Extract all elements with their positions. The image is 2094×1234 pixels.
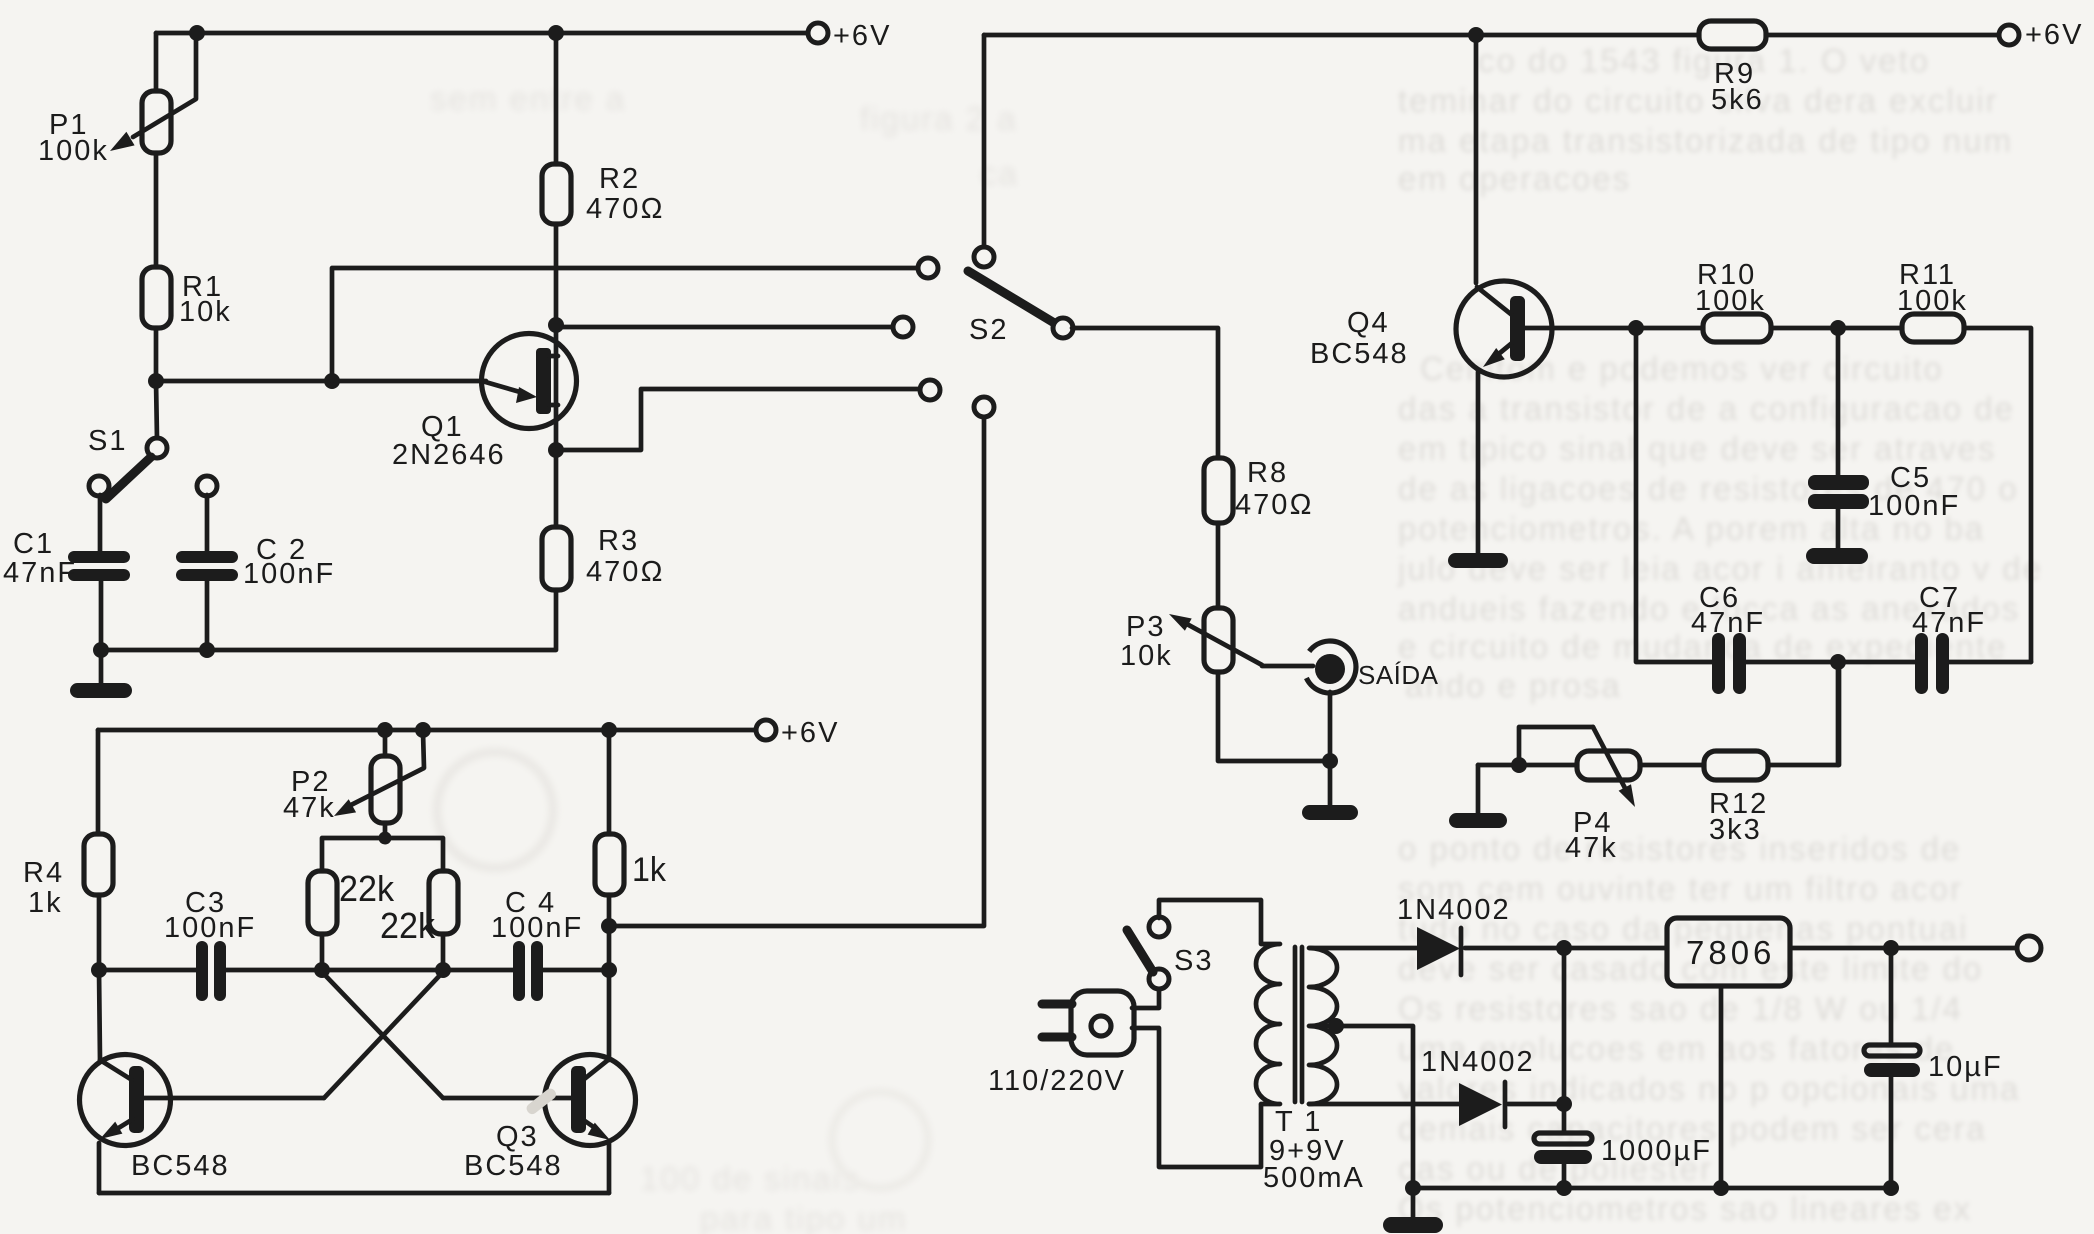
svg-text:10k: 10k <box>1120 640 1173 672</box>
S2 contact 2 <box>893 317 913 337</box>
svg-text:BC548: BC548 <box>464 1150 563 1182</box>
node rail/P2 body <box>377 722 393 738</box>
wire plug bottom loop to primary bottom <box>1132 1028 1261 1167</box>
resistor R2 470R <box>542 163 665 225</box>
ground (P4) <box>1449 813 1507 828</box>
svg-text:100k: 100k <box>38 135 109 167</box>
wire P3 wiper to output jack <box>1262 664 1313 669</box>
resistor 22k (right) <box>380 871 458 946</box>
capacitor C1 47nF <box>3 528 130 589</box>
svg-text:100 de sinais: 100 de sinais <box>640 1160 860 1197</box>
node P4 left/wiper tie <box>1511 757 1527 773</box>
wire node to Q1 emitter <box>156 379 486 384</box>
resistor R3 470R <box>542 525 665 590</box>
wire R2 through Q1 to B1 node <box>554 224 559 450</box>
svg-text:100k: 100k <box>1695 285 1766 317</box>
wire +6V vertical feed to S2 arm <box>982 35 987 248</box>
wire 1000uF to rail <box>1562 1164 1567 1188</box>
wire rail to R4 <box>96 730 101 834</box>
capacitor C7 47nF <box>1912 582 1986 694</box>
wire C6 to C7 <box>1746 660 1916 665</box>
S2 contact 1 <box>918 258 938 278</box>
resistor R12 3k3 <box>1704 751 1768 846</box>
node Q4 base/C6 branch <box>1628 320 1644 336</box>
ground (C5) <box>1806 548 1868 564</box>
wire C7 to right branch <box>1949 660 2031 665</box>
potentiometer P2 47k <box>283 730 424 824</box>
transistor Q2 BC548 <box>80 1055 325 1183</box>
S2 contact 3 <box>920 380 940 400</box>
wire +6V rail right <box>984 33 1699 38</box>
svg-text:R3: R3 <box>598 525 639 557</box>
svg-text:BC548: BC548 <box>1310 338 1409 370</box>
wire 7806 common pin <box>1719 986 1724 1188</box>
capacitor 1000uF <box>1534 1133 1712 1167</box>
output terminal <box>2017 936 2041 960</box>
svg-text:para tipo um: para tipo um <box>700 1200 907 1234</box>
potentiometer P1 100k <box>38 36 196 167</box>
wire B1 node to R3 <box>554 450 559 527</box>
svg-text:teminar do circuito silva dera: teminar do circuito silva dera excluir <box>1398 82 1999 119</box>
svg-text:1k: 1k <box>632 851 667 889</box>
svg-text:R8: R8 <box>1247 457 1288 489</box>
node C1 bottom junction <box>93 642 109 658</box>
wire Q3 emitter to rail <box>607 1143 612 1193</box>
transformer T1 secondary winding <box>1309 948 1337 1104</box>
resistor R8 470R <box>1204 457 1314 523</box>
svg-text:em operacoes: em operacoes <box>1398 160 1631 197</box>
resistor R10 100k <box>1695 259 1771 342</box>
wire Q4 emitter to ground <box>1476 372 1481 553</box>
wire secondary center tap <box>1311 1026 1413 1188</box>
svg-text:S3: S3 <box>1174 945 1213 977</box>
wire 10uF branch <box>1889 948 1894 1045</box>
wire R10 to R11 <box>1771 326 1902 331</box>
wire R8 to P3 <box>1216 523 1221 608</box>
wire C6/C7 node down to R12 branch <box>1836 662 1841 765</box>
svg-text:110/220V: 110/220V <box>988 1065 1126 1097</box>
svg-text:1N4002: 1N4002 <box>1421 1046 1535 1078</box>
wire terminal to C2 <box>205 495 210 551</box>
ground (Q4 emitter) <box>1448 553 1508 568</box>
svg-text:sem entre a: sem entre a <box>430 80 626 117</box>
wire P3 bottom to ground node <box>1218 672 1330 761</box>
svg-text:+6V: +6V <box>2025 19 2083 51</box>
node D1/D2/C(1000u) <box>1556 940 1572 956</box>
diode D1 1N4002 (top) <box>1397 894 1511 975</box>
wire D1 to V+ node <box>1465 946 1667 951</box>
wire S2 arm to R8 <box>1072 328 1218 458</box>
wire R2 to rail <box>554 33 559 164</box>
wire +6V rail top-left <box>156 31 809 36</box>
svg-text:47k: 47k <box>1565 832 1618 864</box>
wire P4 to ground <box>1476 765 1481 814</box>
wire 1k to collector node <box>607 895 612 970</box>
wire +6V rail astable <box>98 728 757 733</box>
wire P1 to R1 <box>154 153 159 267</box>
node D2/C junction <box>1556 1096 1572 1112</box>
transistor Q1 2N2646 <box>392 334 577 472</box>
wire jack sleeve to ground node <box>1328 692 1333 761</box>
svg-text:1000µF: 1000µF <box>1601 1135 1712 1167</box>
T1 labels <box>1263 1106 1365 1194</box>
node S2-feed junction <box>601 918 617 934</box>
switch S2 <box>968 247 1073 346</box>
ground (PSU) <box>1383 1217 1443 1233</box>
node C6/C7/R12 <box>1830 654 1846 670</box>
wire split to 22k right <box>385 838 443 871</box>
resistor R4 1k <box>23 834 113 919</box>
+6V terminal (astable) <box>756 720 776 740</box>
svg-text:1k: 1k <box>28 887 63 919</box>
wire 22k left to node <box>320 934 325 970</box>
wire 7806 output <box>1790 946 2021 951</box>
diode D2 1N4002 (bottom) <box>1421 1046 1535 1127</box>
GHOST-BG <box>1397 42 2043 1227</box>
node C2 bottom junction <box>199 642 215 658</box>
wire R12 up to C6/C7 node <box>1768 662 1839 765</box>
wire plug top to S3 <box>1132 988 1159 1008</box>
wire R1 to S1 node <box>154 328 159 381</box>
svg-text:470Ω: 470Ω <box>586 193 665 225</box>
node rail/R2 junction <box>548 25 564 41</box>
wire D2 to rectified node <box>1508 1102 1564 1107</box>
node jack/ground <box>1322 753 1338 769</box>
wire C3/C4 coupling bus <box>99 968 196 973</box>
switch S1 <box>88 425 167 499</box>
wire rail to Q4 collector <box>1474 35 1479 283</box>
wire Q3 collector <box>607 970 612 1060</box>
node 1k/C4/Q3 collector <box>601 962 617 978</box>
wire rail to P1 top <box>154 33 159 91</box>
svg-text:100nF: 100nF <box>164 912 256 944</box>
node 22k-right/C4 <box>435 962 451 978</box>
capacitor C2 100nF <box>176 534 335 590</box>
wire 10uF to rail <box>1889 1077 1894 1188</box>
node rail/Q4 collector <box>1468 27 1484 43</box>
svg-text:47nF: 47nF <box>3 557 77 589</box>
node rail/7806 common <box>1713 1180 1729 1196</box>
svg-text:100nF: 100nF <box>1868 490 1960 522</box>
svg-text:T 1: T 1 <box>1275 1106 1322 1138</box>
node R1/S1/emitter junction <box>148 373 164 389</box>
svg-text:S2: S2 <box>969 314 1008 346</box>
wire node to ground <box>1328 761 1333 806</box>
wire rail to ground <box>1411 1188 1416 1218</box>
svg-text:470Ω: 470Ω <box>1235 489 1314 521</box>
+6V terminal (right) <box>1999 25 2019 45</box>
svg-text:100nF: 100nF <box>491 912 583 944</box>
wire S3 to transformer primary top <box>1159 900 1261 943</box>
svg-text:das a transistor de a configu: das a transistor de a configuracao de <box>1398 390 2015 427</box>
svg-text:C1: C1 <box>13 528 54 560</box>
wire secondary top to diode 1 <box>1310 946 1417 951</box>
wire node up and right to S2 contact 1 <box>332 268 919 381</box>
svg-text:100k: 100k <box>1897 285 1968 317</box>
wire P2 to 22k split node <box>383 823 388 838</box>
ground (output jack) <box>1302 805 1358 820</box>
wire B1 node to S2 contact 3 <box>556 389 921 450</box>
svg-text:5k6: 5k6 <box>1711 84 1764 116</box>
node B1/R3 junction <box>548 442 564 458</box>
wire S1 to C1 <box>98 495 103 551</box>
svg-text:SAÍDA: SAÍDA <box>1358 660 1439 690</box>
terminal above C2 <box>197 476 217 496</box>
correction smudge on Q3 base wire <box>525 1087 559 1117</box>
svg-text:S1: S1 <box>88 425 127 457</box>
wire rectified vertical <box>1562 948 1567 1133</box>
wire C4 to 1k node <box>543 968 609 973</box>
mains plug <box>988 991 1134 1097</box>
node 7806 out/10uF <box>1883 940 1899 956</box>
capacitor C5 100nF <box>1808 462 1960 522</box>
svg-text:500mA: 500mA <box>1263 1162 1365 1194</box>
wire Q2 collector <box>99 970 100 1060</box>
wire C1 to bottom node <box>99 581 104 650</box>
wire split to 22k left <box>322 838 385 871</box>
potentiometer P4 47k <box>1565 727 1640 864</box>
ground (C1) <box>70 683 132 698</box>
svg-text:47nF: 47nF <box>1691 607 1765 639</box>
wire base node down to C6 <box>1636 328 1713 662</box>
wire B2 node to S2 contact 2 <box>556 325 894 330</box>
svg-text:R2: R2 <box>599 163 640 195</box>
transistor Q3 BC548 <box>443 1055 636 1183</box>
wire wiper tie riser <box>1519 727 1593 765</box>
svg-text:470Ω: 470Ω <box>586 556 665 588</box>
capacitor C4 100nF <box>491 887 583 1001</box>
node Q2 collector/C3 <box>91 962 107 978</box>
wire secondary bottom to diode 2 <box>1309 1102 1459 1107</box>
resistor R1 10k <box>142 267 232 328</box>
svg-text:figura 2 a: figura 2 a <box>860 100 1018 137</box>
resistor 22k (left) <box>308 868 395 934</box>
node R10/R11/C5 <box>1830 320 1846 336</box>
wire R1 node down to S1 <box>156 381 157 439</box>
node emitter wire / B2 feed junction <box>324 373 340 389</box>
wire C5 branch <box>1836 328 1841 475</box>
svg-text:47nF: 47nF <box>1912 607 1986 639</box>
wire Q3 base cross-couple to C3 node <box>322 972 443 1098</box>
node rail/1000uF <box>1556 1180 1572 1196</box>
wire astable emitter rail <box>99 1191 609 1196</box>
svg-text:+6V: +6V <box>781 717 839 749</box>
svg-text:ma etapa transistorizada de ti: ma etapa transistorizada de tipo num <box>1398 122 2013 159</box>
+6V terminal (top-left rail) <box>808 23 828 43</box>
wire Q2 emitter to rail <box>97 1143 102 1193</box>
potentiometer P3 10k <box>1120 608 1262 672</box>
svg-text:BC548: BC548 <box>131 1150 230 1182</box>
node center tap <box>1328 1018 1344 1034</box>
wire C2 to bottom wire <box>205 581 210 650</box>
node B2/R2 junction <box>548 317 564 333</box>
wire Q2 base cross-couple to C4 node <box>324 972 443 1098</box>
capacitor 10uF <box>1864 1045 2003 1083</box>
svg-text:100nF: 100nF <box>243 558 335 590</box>
node rail/tap <box>1405 1180 1421 1196</box>
svg-text:2N2646: 2N2646 <box>392 439 506 471</box>
capacitor C3 100nF <box>164 887 256 1001</box>
svg-text:10µF: 10µF <box>1928 1051 2003 1083</box>
resistor R9 5k6 <box>1699 21 1766 116</box>
resistor 1k (Q3 collector) <box>595 730 667 895</box>
wire P4 to R12 <box>1640 763 1704 768</box>
node rail/1k <box>601 722 617 738</box>
svg-text:22k: 22k <box>380 905 436 946</box>
node rail/P2 arrow <box>415 722 431 738</box>
wire 22k right to node <box>441 934 446 970</box>
wire base node to R10 <box>1636 326 1703 331</box>
svg-text:1N4002: 1N4002 <box>1397 894 1511 926</box>
svg-text:+6V: +6V <box>833 20 891 52</box>
wire R4 to C3 node <box>97 895 102 970</box>
node P2/22k split <box>379 832 392 845</box>
switch S3 <box>1127 917 1213 989</box>
svg-text:o ponto de resistores inseri: o ponto de resistores inseridos de <box>1398 830 1961 867</box>
node 22k-left/C3 <box>314 962 330 978</box>
output jack SAIDA <box>1306 641 1438 693</box>
svg-text:Os potenciometros sao linear: Os potenciometros sao lineares ex <box>1398 1190 1972 1227</box>
transformer T1 core <box>1293 947 1298 1102</box>
svg-text:10k: 10k <box>179 296 232 328</box>
svg-text:7806: 7806 <box>1686 934 1775 971</box>
S2 contact 4 <box>974 397 994 417</box>
wire PSU ground rail <box>1413 1186 1891 1191</box>
node rail/10uF <box>1883 1180 1899 1196</box>
node rail/P1-arrow junction <box>189 25 205 41</box>
svg-text:22k: 22k <box>339 868 395 909</box>
wire C5 to ground <box>1836 509 1841 549</box>
capacitor C6 47nF <box>1691 582 1765 694</box>
svg-text:P3: P3 <box>1126 611 1165 643</box>
wire to S2 contact 4 <box>609 416 984 926</box>
svg-text:Os resistores sao de 1/8 W ou: Os resistores sao de 1/8 W ou 1/4 <box>1398 990 1963 1027</box>
regulator U1 7806 <box>1667 918 1790 986</box>
wire R11 to right branch down to C7 <box>1964 328 2031 662</box>
svg-text:47k: 47k <box>283 792 336 824</box>
wire C3 to C4 <box>226 968 513 973</box>
wire ground to P4 left <box>1478 763 1577 768</box>
svg-text:3k3: 3k3 <box>1709 814 1762 846</box>
svg-text:R4: R4 <box>23 857 64 889</box>
resistor R11 100k <box>1897 259 1968 342</box>
wire R3 down and left to C1 <box>101 590 556 650</box>
wire C1 node to ground <box>99 650 104 684</box>
transformer T1 primary winding <box>1256 944 1280 1104</box>
transistor Q4 BC548 <box>1310 281 1636 377</box>
wire R9 to +6V terminal <box>1766 33 2000 38</box>
svg-text:Q4: Q4 <box>1347 307 1390 339</box>
svg-text:Q3: Q3 <box>496 1121 539 1153</box>
